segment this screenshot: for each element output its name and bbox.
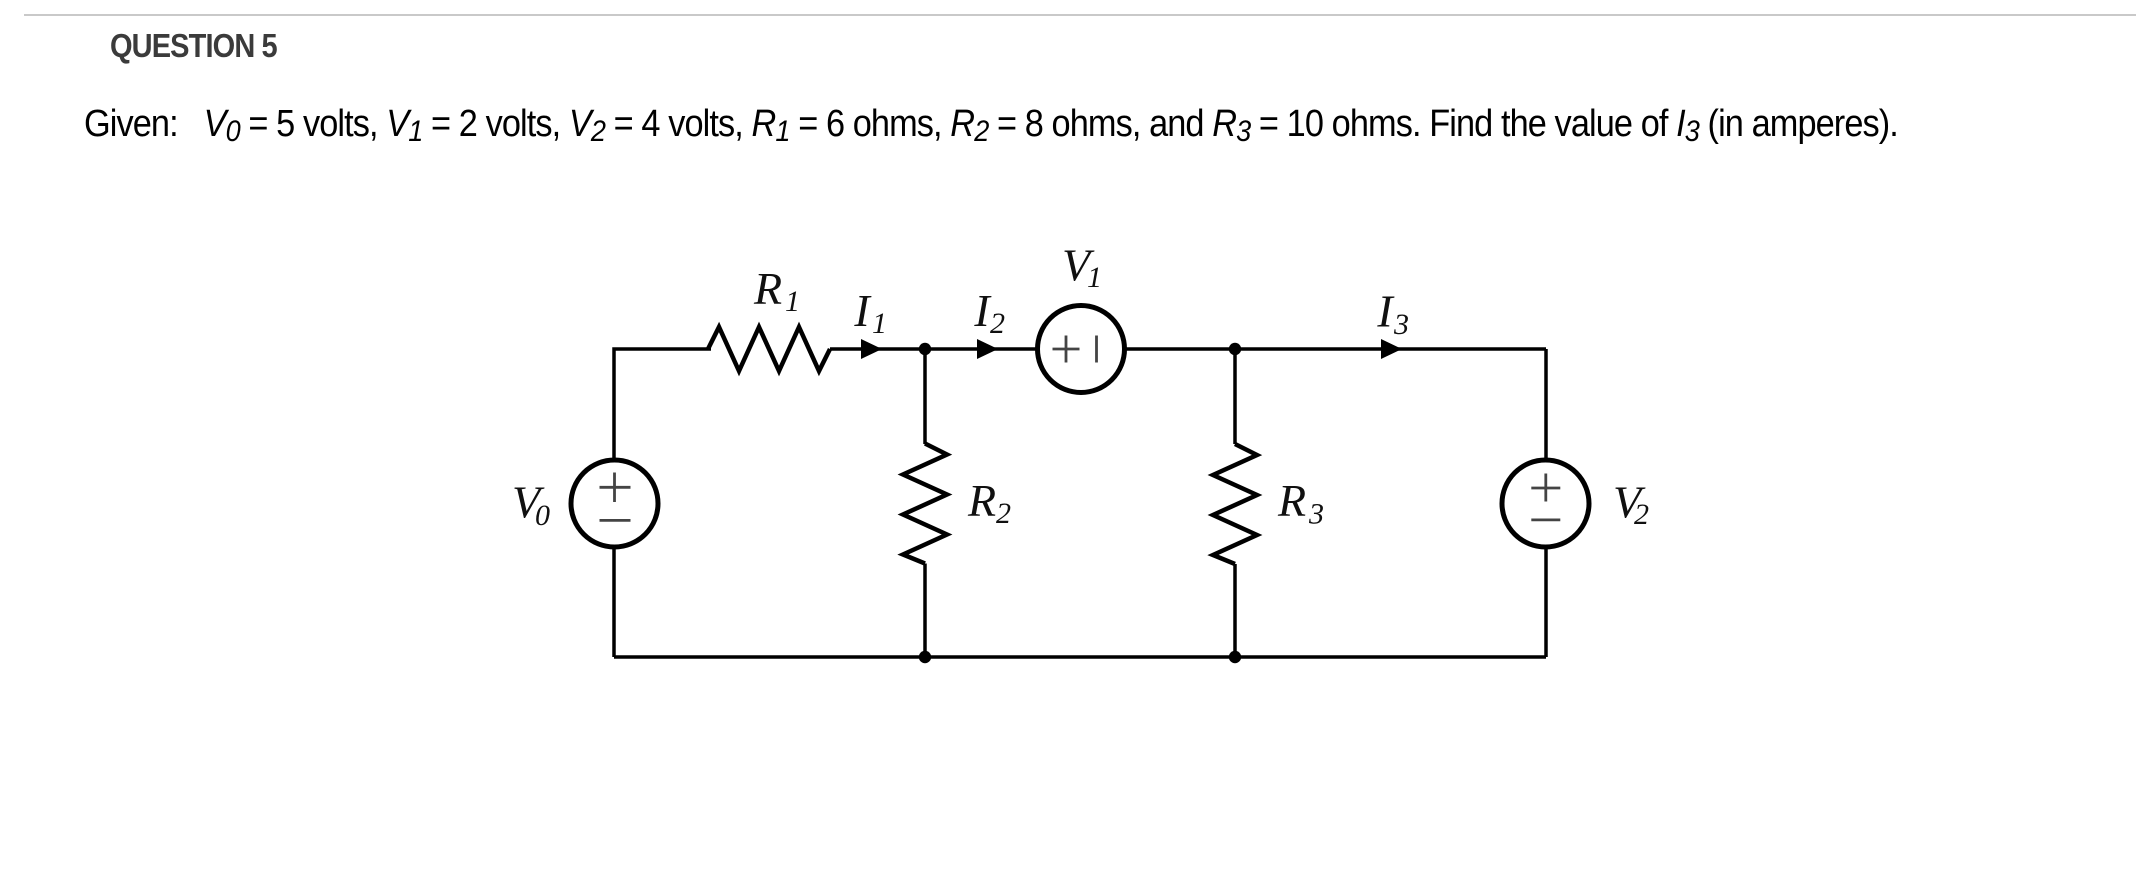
svg-text:R: R (753, 263, 782, 314)
wire V1 to right rail (1123, 347, 1546, 351)
node dot A bottom (919, 651, 931, 663)
svg-text:R: R (1277, 475, 1306, 526)
label V2 (1613, 477, 1649, 532)
wire node A to R2 (923, 349, 927, 444)
top rule (24, 14, 2136, 16)
node dot A top (919, 343, 931, 355)
wire left rail bottom (612, 548, 616, 657)
svg-text:1: 1 (785, 285, 800, 318)
svg-text:0: 0 (535, 499, 550, 532)
svg-text:2: 2 (1634, 498, 1649, 531)
svg-text:1: 1 (872, 307, 887, 340)
resistor R2 (903, 444, 947, 564)
wire node B to R3 (1233, 349, 1237, 444)
node dot B top (1229, 343, 1241, 355)
svg-text:R: R (967, 475, 996, 526)
label V1 (1062, 240, 1102, 295)
svg-text:2: 2 (990, 307, 1005, 340)
svg-text:3: 3 (1393, 308, 1409, 341)
node dot B bottom (1229, 651, 1241, 663)
question text (84, 103, 1898, 146)
voltage source V1 (1038, 306, 1125, 393)
svg-text:1: 1 (1087, 261, 1102, 294)
wire R2 to bottom (923, 564, 927, 658)
label I2 (973, 285, 1005, 340)
svg-text:I: I (1376, 286, 1395, 337)
label R3 (1277, 475, 1324, 531)
current arrow I1 (861, 339, 882, 359)
label I3 (1376, 286, 1409, 342)
svg-text:3: 3 (1308, 498, 1324, 531)
svg-text:I: I (853, 285, 872, 336)
label V0 (512, 477, 550, 533)
wire R3 to bottom (1233, 564, 1237, 657)
current arrow I3 (1381, 339, 1402, 359)
wire top-left corner: left rail top + top wire to R1 (614, 349, 711, 460)
wire bottom (614, 655, 1546, 659)
heading (110, 27, 277, 65)
svg-text:2: 2 (996, 497, 1011, 530)
label I1 (853, 285, 887, 340)
current arrow I2 (977, 339, 998, 359)
resistor R1 (708, 327, 830, 371)
wire R1 to V1 (830, 347, 1039, 351)
label R2 (967, 475, 1011, 530)
wire right rail top (1544, 349, 1548, 460)
label R1 (753, 263, 800, 318)
voltage source V2 (1502, 460, 1589, 547)
voltage source V0 (571, 460, 658, 547)
wire right rail bottom (1544, 548, 1548, 657)
resistor R3 (1213, 444, 1257, 564)
